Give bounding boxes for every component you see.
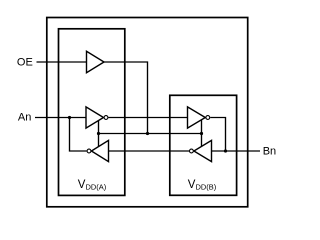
junction enable A [97,132,100,135]
wire enable net [99,133,202,135]
supply box VDD(B) [170,95,237,195]
outer box [47,18,248,207]
wire enable stub B [201,119,203,146]
bubble A driver [104,116,108,120]
wire A driver to B driver [108,117,187,119]
inverter A driver [86,107,104,128]
svg-text:OE: OE [17,57,33,69]
wire B receiver to A receiver [109,150,190,152]
junction enable OE [146,132,149,135]
wire An branch to A receiver output [70,118,87,152]
svg-text:Bn: Bn [263,146,276,158]
junction node An [68,116,71,119]
bubble B receiver [190,149,194,153]
svg-text:An: An [18,112,31,124]
wire OE input [37,61,87,63]
svg-text:VDD(B): VDD(B) [188,179,217,192]
wire enable stub A [98,121,100,147]
inverter A receiver [91,140,108,161]
supply box VDD(A) [59,29,125,196]
junction enable B [200,132,203,135]
wire B driver output to Bn node [210,118,225,152]
inverter B receiver [194,140,212,161]
bubble B driver [206,116,210,120]
bubble A receiver [87,149,91,153]
wire An input [35,117,86,119]
wire Bn output [212,150,261,152]
buffer OE [87,51,105,72]
svg-text:VDD(A): VDD(A) [78,179,107,192]
inverter B driver [188,107,206,128]
junction node Bn [224,149,227,152]
wire OE output to enable line [104,62,148,134]
